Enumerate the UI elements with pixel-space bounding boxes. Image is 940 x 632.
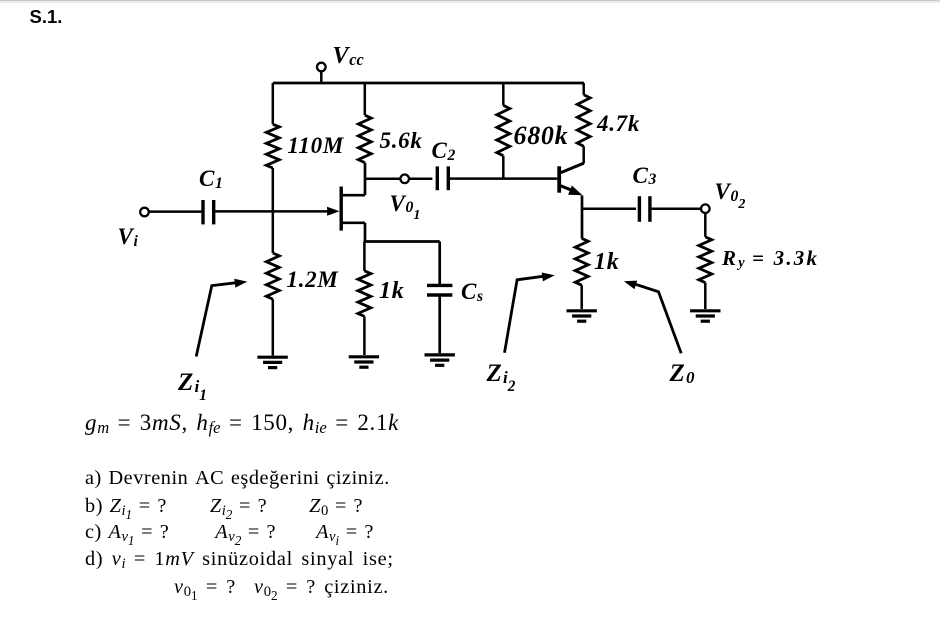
ground (source 1k) <box>349 357 379 367</box>
resistor 1k (source) <box>358 242 371 356</box>
text: question a <box>85 468 390 488</box>
wire: bias node down to gate line and 1.2M <box>272 168 275 253</box>
label 680k <box>514 123 569 149</box>
terminal Vi (input) <box>140 208 149 217</box>
resistor 1k (emitter) <box>575 238 588 309</box>
label 1k emitter <box>594 250 619 274</box>
ground (load Ry) <box>690 311 720 321</box>
resistor 1.2M (gate bias lower) <box>266 253 279 299</box>
text: question b <box>85 496 363 516</box>
text: question c <box>85 522 374 542</box>
wire: Vcc supply top rail <box>273 82 584 85</box>
label Zi1 <box>178 370 207 395</box>
label V02 <box>715 180 746 203</box>
label 4.7k <box>597 112 640 135</box>
resistor 4.7k (collector load) <box>577 83 590 164</box>
label Ry = 3.3k <box>722 248 819 269</box>
label C2 <box>432 139 456 162</box>
resistor 5.6k (drain load) <box>358 83 371 163</box>
capacitor C3 (output coupling) <box>639 196 650 222</box>
wire: emitter node to C3 <box>582 207 636 210</box>
transistor Q1 JFET: gate bar <box>340 187 343 231</box>
wire: emitter down to 1k <box>581 196 584 239</box>
resistor Ry 3.3k (load) <box>699 237 712 309</box>
terminal Vcc (supply node) <box>317 63 326 83</box>
wire: node down to Cs <box>438 242 441 285</box>
wire: V02 to Ry <box>704 213 707 237</box>
transistor Q2 BJT: collector lead <box>561 163 584 172</box>
ground (bias divider) <box>257 357 287 367</box>
wire: C3 to V02 terminal <box>652 207 701 210</box>
ground (emitter) <box>567 311 597 321</box>
terminal V02 (output) <box>701 204 710 213</box>
wire: JFET source down to node <box>364 223 367 243</box>
transistor Q1 JFET: drain stub <box>341 194 365 197</box>
label 1.2M <box>287 268 339 291</box>
ground (Cs) <box>425 355 455 365</box>
pointer arrow Zi2 (input impedance stage 2) <box>505 273 555 353</box>
label C1 <box>199 167 223 190</box>
label 5.6k <box>380 129 423 152</box>
label Zi2 <box>487 361 516 386</box>
capacitor C1 (input coupling) <box>203 200 214 224</box>
label Vi <box>118 225 138 248</box>
transistor Q2 BJT: base bar <box>557 166 561 192</box>
resistor 680k (base bias) <box>497 83 510 179</box>
capacitor C2 (interstage coupling) <box>437 166 448 190</box>
label Vcc <box>333 44 364 68</box>
wire: C1 to JFET gate (arrow) <box>215 207 339 216</box>
label 1k source <box>379 279 404 303</box>
page top edge line <box>0 0 940 1</box>
label 110M <box>288 134 344 157</box>
resistor 110M (gate bias upper) <box>266 83 279 168</box>
wire: C2 to Q2 base <box>450 177 557 180</box>
label V01 <box>390 192 421 215</box>
label C3 <box>633 164 657 187</box>
transistor Q2 BJT: emitter lead with arrow <box>561 186 583 196</box>
wire: drain up to 5.6k / V01 node <box>364 163 367 196</box>
pointer arrow Z0 (output impedance) <box>624 281 681 354</box>
title S.1. <box>30 6 63 28</box>
label Cs <box>461 280 483 303</box>
transistor Q1 JFET: source stub <box>341 221 365 224</box>
pointer arrow Zi1 (input impedance stage 1) <box>196 279 247 357</box>
text: given parameters gm hfe hie <box>85 411 399 434</box>
wire: Cs to ground <box>438 295 441 353</box>
text: question d line 2 <box>174 577 389 597</box>
text: question d <box>85 549 394 569</box>
wire: drain node to V01 terminal <box>365 178 400 181</box>
capacitor Cs (source bypass) <box>427 285 452 295</box>
wire: V01 terminal to C2 <box>409 178 432 181</box>
wire: Vi to C1 <box>149 210 202 213</box>
terminal V01 (first stage output) <box>400 175 409 184</box>
wire: source node across to Cs <box>364 240 440 243</box>
label Z0 <box>670 361 695 386</box>
wire: 1.2M to ground <box>272 299 275 355</box>
